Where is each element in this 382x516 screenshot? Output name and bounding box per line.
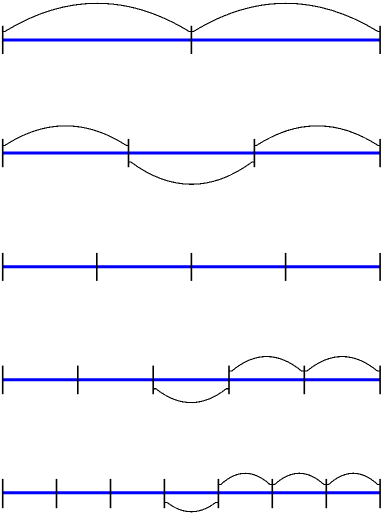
arc above 4c xyxy=(304,357,380,372)
tick 3-2 xyxy=(190,253,192,281)
tick 4-0 xyxy=(2,366,4,395)
number line 2 (thirds) xyxy=(3,152,381,155)
tick 5-4 xyxy=(217,479,219,508)
tick 5-3 xyxy=(163,479,165,508)
number line 3 (quarters) xyxy=(3,265,381,268)
tick 4-1 xyxy=(77,366,79,395)
arc below 4a xyxy=(153,389,229,403)
tick 2-3 xyxy=(379,139,381,167)
arc below 2b xyxy=(129,162,255,184)
tick 3-3 xyxy=(285,253,287,281)
tick 1-0 xyxy=(2,26,4,54)
arc above 2c xyxy=(254,126,380,146)
tick 2-1 xyxy=(128,139,130,167)
arc above 4b xyxy=(229,357,304,372)
tick 4-2 xyxy=(152,366,154,395)
tick 2-2 xyxy=(253,139,255,167)
arc above 1a xyxy=(3,3,192,31)
tick 5-1 xyxy=(56,479,58,508)
tick 4-3 xyxy=(228,366,230,395)
tick 1-2 xyxy=(379,26,381,54)
tick 5-7 xyxy=(379,479,381,508)
tick 1-1 xyxy=(190,26,192,54)
tick 4-4 xyxy=(303,366,305,395)
tick 5-2 xyxy=(110,479,112,508)
tick 4-5 xyxy=(379,366,381,395)
tick 5-0 xyxy=(2,479,4,508)
arc below 5a xyxy=(164,502,218,511)
number line 1 (halves) xyxy=(3,39,381,42)
tick 5-5 xyxy=(271,479,273,508)
arc above 1b xyxy=(191,3,380,31)
arc above 5d xyxy=(326,473,380,484)
arc above 5c xyxy=(272,473,326,484)
number line 5 (sevenths) xyxy=(3,491,381,494)
number line 4 (fifths) xyxy=(3,378,381,381)
arc above 2a xyxy=(3,126,129,146)
tick 5-6 xyxy=(325,479,327,508)
tick 3-1 xyxy=(96,253,98,281)
tick 3-0 xyxy=(2,253,4,281)
tick 2-0 xyxy=(2,139,4,167)
tick 3-4 xyxy=(379,253,381,281)
arc above 5b xyxy=(218,473,272,484)
